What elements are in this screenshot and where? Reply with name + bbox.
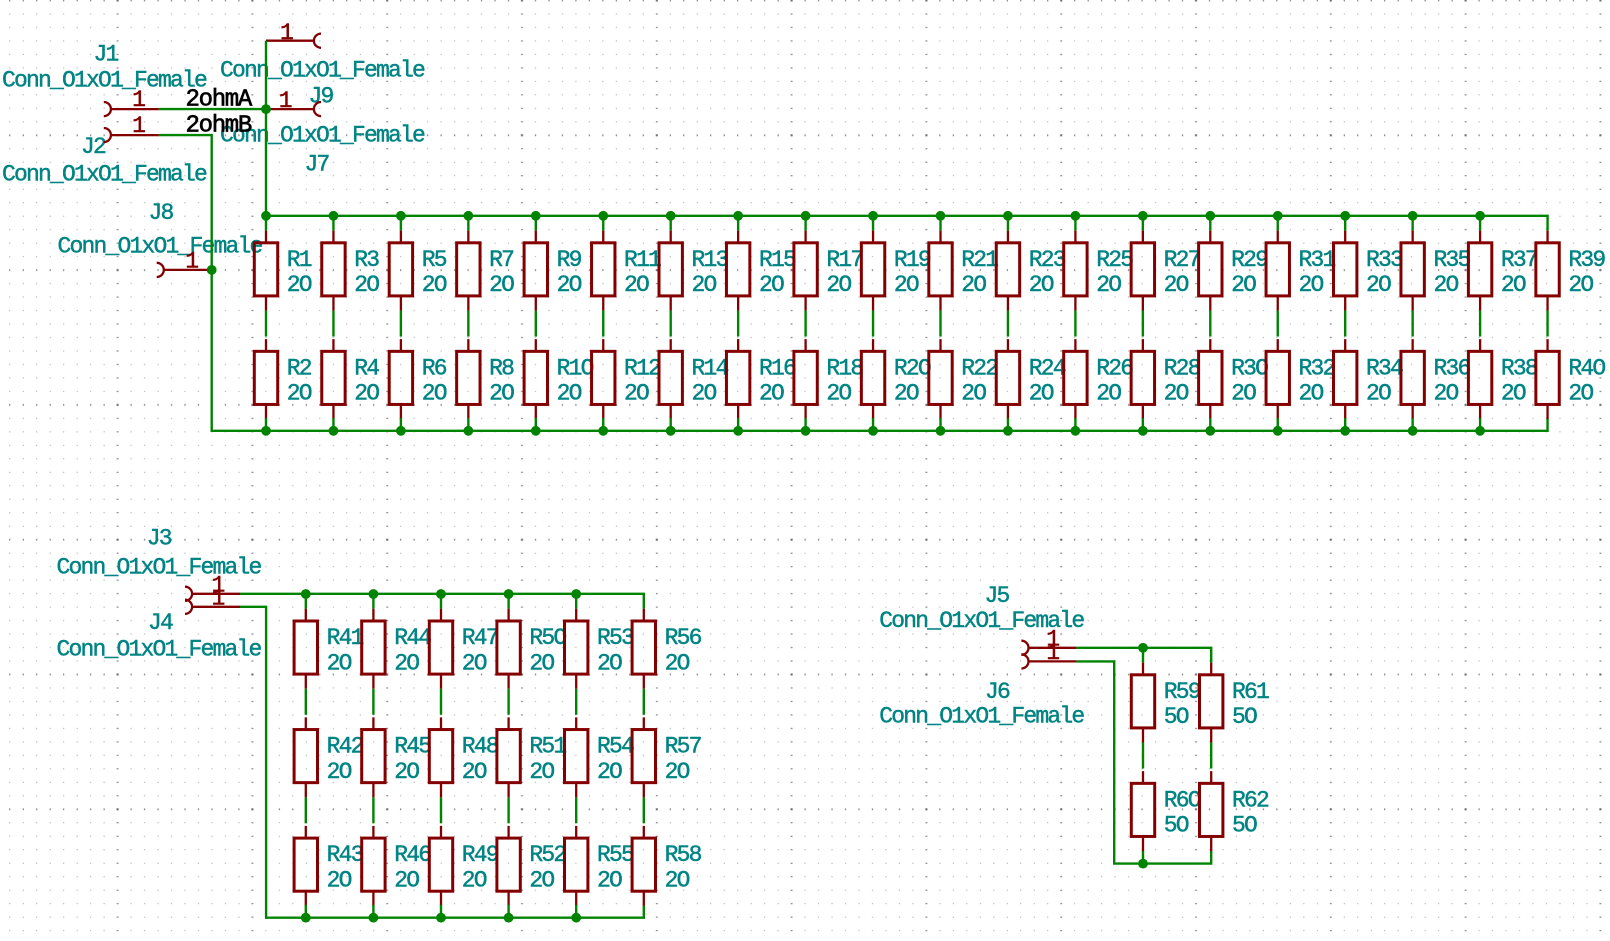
wire stub R18 to bottom rail <box>804 418 806 431</box>
wire stub R4 to bottom rail <box>332 418 334 431</box>
wire between R54 and R55 <box>575 797 577 823</box>
junction mid-grid bottom rail col 3 <box>436 913 446 923</box>
resistor R41 <box>294 609 364 689</box>
resistor R48 <box>429 717 499 797</box>
svg-text:R17: R17 <box>826 247 862 273</box>
svg-text:2O: 2O <box>1299 272 1324 298</box>
svg-text:5O: 5O <box>1164 704 1189 730</box>
svg-text:J2: J2 <box>81 134 106 160</box>
resistor R10 <box>524 339 594 419</box>
svg-text:2O: 2O <box>422 272 447 298</box>
svg-text:R49: R49 <box>462 842 499 868</box>
wire stub top rail to R11 <box>602 216 604 231</box>
junction top rail col 9 <box>801 211 811 221</box>
wire between R17 and R18 <box>804 311 806 337</box>
svg-text:R23: R23 <box>1029 247 1066 273</box>
svg-text:R33: R33 <box>1366 247 1403 273</box>
junction top rail col 19 <box>1475 211 1485 221</box>
svg-text:R41: R41 <box>327 625 364 651</box>
svg-text:2O: 2O <box>462 650 487 676</box>
junction bottom rail col 17 <box>1340 426 1350 436</box>
svg-text:R4: R4 <box>354 355 379 381</box>
svg-text:2O: 2O <box>462 867 487 893</box>
wire stub R32 to bottom rail <box>1277 418 1279 431</box>
svg-text:2O: 2O <box>327 867 352 893</box>
junction bottom rail col 7 <box>666 426 676 436</box>
svg-text:2O: 2O <box>665 759 690 785</box>
svg-text:2O: 2O <box>1568 381 1593 407</box>
svg-text:R51: R51 <box>529 734 566 760</box>
resistor R19 <box>861 231 931 311</box>
svg-text:2O: 2O <box>287 381 312 407</box>
junction bottom rail col 15 <box>1205 426 1215 436</box>
junction bottom rail col 2 <box>329 426 339 436</box>
connector J6 pin 1 <box>1021 640 1076 669</box>
junction top rail col 7 <box>666 211 676 221</box>
wire between R25 and R26 <box>1074 311 1076 337</box>
junction top rail col 18 <box>1408 211 1418 221</box>
svg-text:R7: R7 <box>489 247 513 273</box>
svg-text:R5: R5 <box>422 247 447 273</box>
resistor R5 <box>389 231 447 311</box>
svg-text:R13: R13 <box>692 247 729 273</box>
svg-text:2O: 2O <box>961 381 986 407</box>
resistor R15 <box>726 231 796 311</box>
svg-text:2O: 2O <box>1096 272 1121 298</box>
svg-text:R18: R18 <box>826 355 863 381</box>
svg-text:1: 1 <box>132 87 145 113</box>
resistor R16 <box>726 339 796 419</box>
wire between R21 and R22 <box>939 311 941 337</box>
wire between R53 and R54 <box>575 689 577 715</box>
svg-text:2O: 2O <box>597 650 622 676</box>
svg-text:Conn_O1xO1_Female: Conn_O1xO1_Female <box>2 68 207 94</box>
wire between R47 and R48 <box>440 689 442 715</box>
wire from J5 to R61 column <box>1076 648 1211 663</box>
resistor R28 <box>1131 339 1201 419</box>
svg-text:2O: 2O <box>529 759 554 785</box>
resistor R27 <box>1131 231 1200 311</box>
svg-text:2O: 2O <box>665 867 690 893</box>
svg-text:R36: R36 <box>1433 355 1470 381</box>
svg-text:2O: 2O <box>624 381 649 407</box>
wire between R42 and R43 <box>305 797 307 823</box>
svg-text:5O: 5O <box>1232 813 1257 839</box>
resistor R22 <box>929 339 999 419</box>
wire stub R28 to bottom rail <box>1142 418 1144 431</box>
resistor R33 <box>1334 231 1404 311</box>
junction top rail col 3 <box>396 211 406 221</box>
svg-text:2O: 2O <box>1433 381 1458 407</box>
resistor R9 <box>524 231 582 311</box>
wire top rail <box>266 216 1548 231</box>
junction J6 net at R60 column <box>1138 859 1148 869</box>
wire stub top rail to R35 <box>1411 216 1413 231</box>
wire stub R14 to bottom rail <box>670 418 672 431</box>
svg-text:2O: 2O <box>354 272 379 298</box>
svg-text:R62: R62 <box>1232 787 1269 813</box>
svg-text:2O: 2O <box>489 381 514 407</box>
junction node 2ohmA at J7 pin <box>261 104 271 114</box>
svg-text:R37: R37 <box>1501 247 1537 273</box>
junction top rail col 13 <box>1071 211 1081 221</box>
connector J7 pin 1 <box>266 88 321 116</box>
resistor R61 <box>1200 663 1270 743</box>
wire between R13 and R14 <box>670 311 672 337</box>
resistor R31 <box>1266 231 1336 311</box>
svg-text:2O: 2O <box>394 867 419 893</box>
wire stub top rail to R29 <box>1209 216 1211 231</box>
junction bottom rail col 4 <box>463 426 473 436</box>
svg-text:R42: R42 <box>327 734 364 760</box>
svg-text:R15: R15 <box>759 247 796 273</box>
svg-text:2O: 2O <box>894 272 919 298</box>
wire between R51 and R52 <box>507 797 509 823</box>
junction bottom rail col 6 <box>598 426 608 436</box>
resistor R58 <box>632 826 702 906</box>
wire between R33 and R34 <box>1344 311 1346 337</box>
resistor R60 <box>1131 771 1201 851</box>
resistor R56 <box>632 609 702 689</box>
connector J4 pin 1 <box>185 585 240 614</box>
junction top rail col 10 <box>868 211 878 221</box>
svg-text:R3: R3 <box>354 247 379 273</box>
resistor R26 <box>1064 339 1134 419</box>
svg-text:2O: 2O <box>1231 272 1256 298</box>
svg-text:1: 1 <box>185 248 198 274</box>
junction top rail col 4 <box>463 211 473 221</box>
wire stub R60 to bottom wire <box>1142 851 1144 864</box>
svg-text:2O: 2O <box>1366 272 1391 298</box>
resistor R43 <box>294 826 364 906</box>
resistor R14 <box>659 339 729 419</box>
junction bottom rail col 9 <box>801 426 811 436</box>
svg-text:R45: R45 <box>394 734 431 760</box>
svg-text:R55: R55 <box>597 842 634 868</box>
svg-text:1: 1 <box>1046 640 1059 666</box>
wire between R31 and R32 <box>1277 311 1279 337</box>
resistor R51 <box>497 717 567 797</box>
junction top rail col 8 <box>733 211 743 221</box>
resistor R36 <box>1401 339 1471 419</box>
svg-text:R47: R47 <box>462 625 498 651</box>
wire stub top rail to R23 <box>1007 216 1009 231</box>
wire between R39 and R40 <box>1546 311 1548 337</box>
svg-text:2O: 2O <box>759 272 784 298</box>
junction bottom rail col 10 <box>868 426 878 436</box>
svg-text:R27: R27 <box>1164 247 1200 273</box>
resistor R7 <box>457 231 515 311</box>
svg-text:2O: 2O <box>287 272 312 298</box>
svg-text:2O: 2O <box>692 272 717 298</box>
resistor R42 <box>294 717 364 797</box>
resistor R11 <box>592 231 662 311</box>
svg-text:R16: R16 <box>759 355 796 381</box>
connector J8 pin 1 <box>157 248 212 277</box>
svg-text:2O: 2O <box>1029 272 1054 298</box>
svg-text:R46: R46 <box>394 842 431 868</box>
wire between R56 and R57 <box>643 689 645 715</box>
svg-text:R1O: R1O <box>557 355 594 381</box>
svg-text:2O: 2O <box>1501 272 1526 298</box>
junction top rail col 14 <box>1138 211 1148 221</box>
svg-text:R11: R11 <box>624 247 661 273</box>
svg-text:R57: R57 <box>665 734 701 760</box>
connector J5 pin 1 <box>1021 626 1076 655</box>
svg-text:2O: 2O <box>597 867 622 893</box>
wire between R37 and R38 <box>1479 311 1481 337</box>
wire between R5 and R6 <box>400 311 402 337</box>
wire stub rail to R41 <box>305 594 307 609</box>
resistor R6 <box>389 339 447 419</box>
junction mid-grid top rail col 1 <box>301 589 311 599</box>
wire stub top rail to R17 <box>804 216 806 231</box>
svg-text:Conn_O1xO1_Female: Conn_O1xO1_Female <box>220 58 425 84</box>
resistor R32 <box>1266 339 1336 419</box>
svg-text:J8: J8 <box>149 200 174 226</box>
svg-text:5O: 5O <box>1164 813 1189 839</box>
svg-text:2O: 2O <box>1164 272 1189 298</box>
wire between R45 and R46 <box>372 797 374 823</box>
svg-text:R6O: R6O <box>1164 787 1201 813</box>
junction bottom rail col 3 <box>396 426 406 436</box>
resistor R35 <box>1401 231 1471 311</box>
svg-text:2O: 2O <box>665 650 690 676</box>
resistor R40 <box>1536 339 1606 419</box>
svg-text:R2: R2 <box>287 355 312 381</box>
junction top rail col 2 <box>329 211 339 221</box>
junction bottom rail col 16 <box>1273 426 1283 436</box>
wire stub R49 to bottom rail <box>440 905 442 918</box>
svg-text:J6: J6 <box>985 679 1010 705</box>
wire stub top rail to R27 <box>1142 216 1144 231</box>
svg-text:2O: 2O <box>327 650 352 676</box>
resistor R1 <box>254 231 312 311</box>
resistor R24 <box>996 339 1066 419</box>
wire stub R30 to bottom rail <box>1209 418 1211 431</box>
wire stub top rail to R19 <box>872 216 874 231</box>
resistor R34 <box>1334 339 1404 419</box>
svg-text:R9: R9 <box>557 247 582 273</box>
svg-text:R8: R8 <box>489 355 514 381</box>
svg-text:2O: 2O <box>354 381 379 407</box>
junction J8 tap on 2ohmB vertical <box>207 265 217 275</box>
junction bottom rail col 5 <box>531 426 541 436</box>
wire stub top rail to R33 <box>1344 216 1346 231</box>
svg-text:R2O: R2O <box>894 355 931 381</box>
wire between R41 and R42 <box>305 689 307 715</box>
wire stub R6 to bottom rail <box>400 418 402 431</box>
resistor R50 <box>497 609 567 689</box>
wire stub R8 to bottom rail <box>467 418 469 431</box>
svg-text:2O: 2O <box>529 867 554 893</box>
junction top rail col 12 <box>1003 211 1013 221</box>
svg-text:R31: R31 <box>1299 247 1336 273</box>
svg-text:R48: R48 <box>462 734 499 760</box>
svg-text:Conn_O1xO1_Female: Conn_O1xO1_Female <box>57 554 262 580</box>
wire between R23 and R24 <box>1007 311 1009 337</box>
resistor R59 <box>1131 663 1201 743</box>
wire stub top rail to R31 <box>1277 216 1279 231</box>
wire from J3 along middle-grid top rail <box>240 594 644 609</box>
wire stub R2 to bottom rail <box>265 418 267 431</box>
resistor R47 <box>429 609 498 689</box>
svg-text:2O: 2O <box>961 272 986 298</box>
resistor R52 <box>497 826 567 906</box>
wire stub R55 to bottom rail <box>575 905 577 918</box>
wire between R7 and R8 <box>467 311 469 337</box>
wire stub R46 to bottom rail <box>372 905 374 918</box>
junction bottom rail col 19 <box>1475 426 1485 436</box>
svg-text:1: 1 <box>280 20 293 46</box>
resistor R29 <box>1199 231 1269 311</box>
junction bottom rail col 8 <box>733 426 743 436</box>
svg-text:Conn_O1xO1_Female: Conn_O1xO1_Female <box>879 704 1084 730</box>
resistor R46 <box>362 826 432 906</box>
resistor R17 <box>794 231 863 311</box>
wire stub top rail to R13 <box>670 216 672 231</box>
svg-text:R25: R25 <box>1096 247 1133 273</box>
resistor R44 <box>362 609 432 689</box>
svg-text:2O: 2O <box>826 381 851 407</box>
svg-text:2O: 2O <box>759 381 784 407</box>
svg-text:R5O: R5O <box>529 625 566 651</box>
resistor R20 <box>861 339 931 419</box>
junction mid-grid top rail col 3 <box>436 589 446 599</box>
svg-text:R4O: R4O <box>1568 355 1605 381</box>
junction mid-grid bottom rail col 1 <box>301 913 311 923</box>
wire stub top rail to R25 <box>1074 216 1076 231</box>
wire stub top rail to R37 <box>1479 216 1481 231</box>
svg-text:Conn_O1xO1_Female: Conn_O1xO1_Female <box>57 636 262 662</box>
svg-text:R52: R52 <box>529 842 566 868</box>
resistor R13 <box>659 231 729 311</box>
wire net 2ohmB from J2 down and along bottom rail <box>159 135 1548 431</box>
svg-text:5O: 5O <box>1232 704 1257 730</box>
wire between R35 and R36 <box>1411 311 1413 337</box>
svg-text:R53: R53 <box>597 625 634 651</box>
junction top rail col 15 <box>1205 211 1215 221</box>
junction mid-grid bottom rail col 5 <box>571 913 581 923</box>
wire vertical from J9 pin through J7/J1 node to R1 <box>265 41 267 231</box>
svg-text:J7: J7 <box>305 151 329 177</box>
svg-text:R19: R19 <box>894 247 931 273</box>
wire between R59 and R60 <box>1142 743 1144 769</box>
svg-text:2O: 2O <box>422 381 447 407</box>
resistor R53 <box>565 609 635 689</box>
wire stub rail to R53 <box>575 594 577 609</box>
svg-text:2O: 2O <box>394 759 419 785</box>
svg-text:2O: 2O <box>1096 381 1121 407</box>
junction top rail col 11 <box>936 211 946 221</box>
svg-text:R29: R29 <box>1231 247 1268 273</box>
svg-text:2O: 2O <box>1433 272 1458 298</box>
wire between R50 and R51 <box>507 689 509 715</box>
wire stub R20 to bottom rail <box>872 418 874 431</box>
svg-text:R32: R32 <box>1299 355 1336 381</box>
svg-text:2O: 2O <box>1231 381 1256 407</box>
wire stub R24 to bottom rail <box>1007 418 1009 431</box>
wire between R57 and R58 <box>643 797 645 823</box>
resistor R55 <box>565 826 635 906</box>
svg-text:R44: R44 <box>394 625 431 651</box>
wire between R27 and R28 <box>1142 311 1144 337</box>
svg-text:Conn_O1xO1_Female: Conn_O1xO1_Female <box>2 162 207 188</box>
svg-text:2O: 2O <box>557 272 582 298</box>
wire stub rail to R44 <box>372 594 374 609</box>
junction top rail col 5 <box>531 211 541 221</box>
resistor R12 <box>592 339 662 419</box>
junction bottom rail col 1 <box>261 426 271 436</box>
svg-text:J1: J1 <box>94 42 119 68</box>
svg-text:2O: 2O <box>462 759 487 785</box>
resistor R3 <box>322 231 380 311</box>
svg-text:R3O: R3O <box>1231 355 1268 381</box>
junction bottom rail col 18 <box>1408 426 1418 436</box>
svg-text:R1: R1 <box>287 247 312 273</box>
svg-text:Conn_O1xO1_Female: Conn_O1xO1_Female <box>58 234 263 260</box>
svg-text:2O: 2O <box>826 272 851 298</box>
wire stub top rail to R21 <box>939 216 941 231</box>
wire stub R10 to bottom rail <box>535 418 537 431</box>
resistor R38 <box>1468 339 1538 419</box>
resistor R2 <box>254 339 312 419</box>
resistor R18 <box>794 339 864 419</box>
connector J2 pin 1 <box>104 113 159 142</box>
resistor R62 <box>1200 771 1270 851</box>
wire between R61 and R62 <box>1210 743 1212 769</box>
wire stub to R59 <box>1142 648 1144 663</box>
wire stub top rail to R3 <box>332 216 334 231</box>
svg-text:2O: 2O <box>1029 381 1054 407</box>
svg-text:R28: R28 <box>1164 355 1201 381</box>
wire between R9 and R10 <box>535 311 537 337</box>
svg-text:R12: R12 <box>624 355 661 381</box>
svg-text:2O: 2O <box>1568 272 1593 298</box>
wire between R48 and R49 <box>440 797 442 823</box>
wire between R15 and R16 <box>737 311 739 337</box>
wire stub R34 to bottom rail <box>1344 418 1346 431</box>
svg-text:2O: 2O <box>394 650 419 676</box>
resistor R23 <box>996 231 1066 311</box>
junction J5 net at R59 column <box>1138 643 1148 653</box>
svg-text:R21: R21 <box>961 247 998 273</box>
svg-text:2O: 2O <box>1501 381 1526 407</box>
resistor R57 <box>632 717 701 797</box>
junction top rail col 16 <box>1273 211 1283 221</box>
svg-text:2O: 2O <box>692 381 717 407</box>
junction bottom rail col 11 <box>936 426 946 436</box>
wire stub rail to R50 <box>507 594 509 609</box>
svg-text:R39: R39 <box>1568 247 1605 273</box>
junction mid-grid bottom rail col 4 <box>504 913 514 923</box>
svg-text:R35: R35 <box>1433 247 1470 273</box>
svg-text:R26: R26 <box>1096 355 1133 381</box>
connector J3 pin 1 <box>185 572 240 601</box>
wire stub top rail to R5 <box>400 216 402 231</box>
svg-text:R56: R56 <box>665 625 702 651</box>
svg-text:2O: 2O <box>597 759 622 785</box>
wire stub R12 to bottom rail <box>602 418 604 431</box>
svg-text:2O: 2O <box>894 381 919 407</box>
wire stub R52 to bottom rail <box>507 905 509 918</box>
junction mid-grid top rail col 2 <box>369 589 379 599</box>
wire net 2ohmA from J1 to vertical <box>159 108 266 110</box>
junction bottom rail col 12 <box>1003 426 1013 436</box>
wire stub R16 to bottom rail <box>737 418 739 431</box>
junction top rail col 17 <box>1340 211 1350 221</box>
svg-text:J5: J5 <box>985 583 1010 609</box>
